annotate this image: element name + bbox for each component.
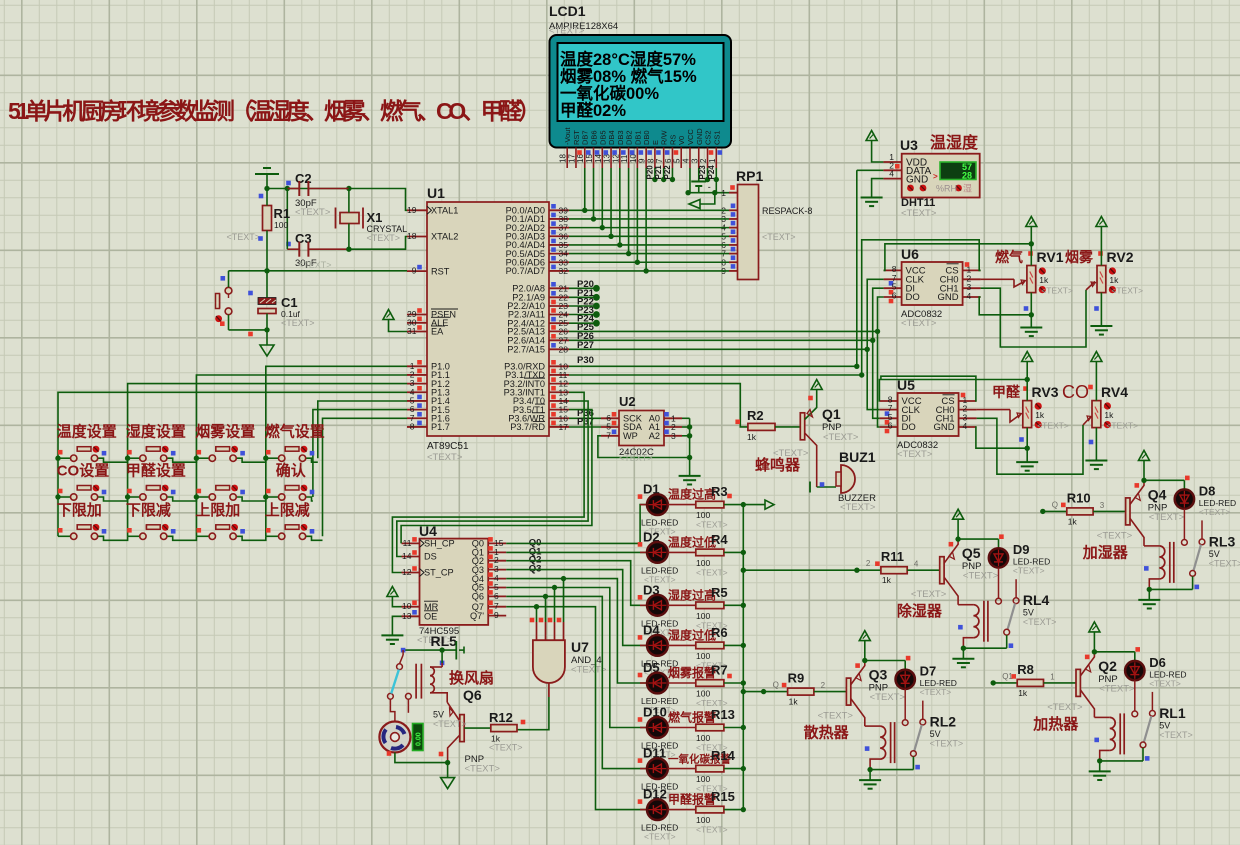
svg-text:<TEXT>: <TEXT> — [433, 719, 467, 729]
wire R9 to Q3 base — [814, 691, 847, 693]
svg-text:18: 18 — [559, 154, 568, 163]
svg-text:P24: P24 — [707, 165, 716, 180]
svg-text:U1: U1 — [427, 185, 445, 201]
svg-text:2: 2 — [821, 681, 826, 690]
svg-text:甲醛02%: 甲醛02% — [560, 100, 626, 120]
wire D9 to relay contact — [998, 568, 1000, 599]
U3 display — [940, 162, 976, 180]
relay RL1 coil — [1119, 713, 1121, 754]
svg-text:VCC: VCC — [686, 129, 695, 145]
ground under C1 — [266, 330, 268, 345]
svg-text:14: 14 — [594, 154, 603, 163]
svg-text:<TEXT>: <TEXT> — [762, 232, 796, 242]
svg-text:31: 31 — [407, 326, 417, 336]
net labels Q0-Q3 — [529, 537, 542, 574]
wire R2 to Q1 base — [775, 426, 800, 428]
transistor Q4 PNP — [1126, 498, 1130, 525]
svg-text:P1.7: P1.7 — [431, 422, 450, 432]
svg-text:<TEXT>: <TEXT> — [644, 832, 676, 842]
svg-text:6: 6 — [494, 591, 499, 601]
svg-text:除湿器: 除湿器 — [897, 602, 943, 620]
svg-text:DB0: DB0 — [642, 130, 651, 145]
svg-text:CS2: CS2 — [704, 130, 713, 145]
svg-text:X1: X1 — [367, 210, 383, 225]
svg-text:<TEXT>: <TEXT> — [295, 207, 331, 218]
svg-text:>: > — [933, 172, 938, 181]
svg-text:DB3: DB3 — [616, 130, 625, 145]
wire Q4 to U7 input — [506, 579, 563, 622]
LCD1 pin stubs and numbers — [559, 148, 722, 169]
svg-text:Q: Q — [1052, 500, 1058, 509]
svg-text:<TEXT>: <TEXT> — [963, 571, 999, 582]
svg-text:100: 100 — [696, 815, 710, 825]
wire fan bottom rail — [395, 753, 448, 763]
svg-text:R8: R8 — [1017, 662, 1034, 677]
wire input net R9 — [761, 689, 766, 694]
potentiometer RV1 — [1027, 266, 1036, 293]
svg-text:100: 100 — [274, 220, 288, 230]
svg-text:<TEXT>: <TEXT> — [1149, 678, 1181, 688]
svg-text:RV2: RV2 — [1107, 249, 1134, 265]
svg-text:9: 9 — [638, 158, 647, 163]
wire LED common bus — [742, 505, 744, 810]
wire button row 1 to P1.4 — [318, 401, 407, 458]
svg-text:RESPACK-8: RESPACK-8 — [762, 206, 812, 216]
svg-text:Q3: Q3 — [869, 667, 888, 683]
svg-text:1k: 1k — [1109, 275, 1119, 285]
svg-text:湿度过低: 湿度过低 — [668, 627, 716, 642]
svg-text:<TEXT>: <TEXT> — [489, 743, 523, 753]
ground U4 OE — [392, 616, 401, 635]
svg-text:温度28°C湿度57%: 温度28°C湿度57% — [560, 49, 696, 69]
wire R7 to bus — [724, 682, 743, 684]
sensor U3 DHT11 — [902, 154, 980, 198]
svg-text:R15: R15 — [711, 789, 735, 804]
svg-text:<TEXT>: <TEXT> — [571, 665, 607, 676]
svg-text:<TEXT>: <TEXT> — [1159, 730, 1193, 740]
svg-text:P30: P30 — [577, 355, 594, 366]
wire input net R8 — [991, 680, 996, 685]
wire top rail to XTAL1 — [287, 189, 407, 211]
wire Q5 top rail to D9 — [958, 538, 998, 540]
svg-text:4: 4 — [681, 158, 690, 163]
svg-text:燃气: 燃气 — [995, 249, 1023, 265]
transistor Q5 PNP — [940, 557, 944, 584]
relay RL2 switch — [902, 720, 908, 726]
svg-text:甲醛设置: 甲醛设置 — [126, 462, 186, 480]
wire Q3 top rail to D7 — [865, 660, 905, 662]
wire U6 CLK down to U5 CLK — [867, 279, 883, 409]
button formaldehyde-set — [128, 496, 140, 498]
wire U4 SH_CP from P3.5 — [401, 410, 592, 544]
svg-text:P0.7/AD7: P0.7/AD7 — [506, 266, 545, 276]
led D8 — [1175, 489, 1194, 508]
wire RV2 bottom to ground — [1100, 293, 1102, 326]
svg-text:R2: R2 — [747, 408, 764, 423]
svg-text:<TEXT>: <TEXT> — [1023, 617, 1057, 627]
svg-text:温度设置: 温度设置 — [57, 423, 117, 441]
button lower-limit-minus — [128, 535, 140, 537]
relay RL1 switch — [1132, 711, 1138, 717]
svg-text:燃气设置: 燃气设置 — [265, 423, 325, 441]
wire R11 to Q5 base — [907, 569, 940, 571]
svg-text:3: 3 — [1100, 501, 1105, 510]
svg-text:18: 18 — [407, 231, 417, 241]
shift register U4 74HC595 — [420, 539, 489, 625]
wire R5 to bus — [724, 604, 743, 606]
svg-text:Q: Q — [773, 681, 779, 690]
button temp-set — [58, 457, 70, 459]
svg-text:R14: R14 — [711, 748, 736, 763]
svg-text:-Vout: -Vout — [563, 127, 572, 145]
svg-text:<TEXT>: <TEXT> — [1047, 702, 1083, 713]
svg-text:<TEXT>: <TEXT> — [465, 764, 501, 775]
button gas-set — [266, 457, 279, 459]
wire R13 to bus — [724, 727, 743, 729]
power arrow Q3 — [859, 631, 870, 641]
button upper-limit-plus — [196, 535, 209, 537]
button CO-set — [58, 496, 70, 498]
U5 left pins — [880, 395, 922, 434]
RP1 pins 2-9 — [721, 204, 737, 276]
svg-text:甲醛报警: 甲醛报警 — [668, 792, 716, 807]
svg-text:Q5: Q5 — [962, 545, 981, 561]
wire RL3 bottom rail — [1149, 588, 1192, 590]
svg-text:5V: 5V — [1159, 720, 1170, 730]
svg-text:RL5: RL5 — [431, 633, 458, 649]
power arrow U4 MR — [387, 587, 398, 597]
svg-text:100: 100 — [696, 611, 710, 621]
svg-text:10: 10 — [402, 601, 412, 611]
svg-text:100: 100 — [696, 733, 710, 743]
fan motor — [379, 722, 410, 753]
svg-text:一氧化碳00%: 一氧化碳00% — [560, 83, 659, 103]
svg-text:RS: RS — [668, 135, 677, 145]
svg-text:CS1: CS1 — [712, 130, 721, 145]
wire P1.3 to button column 1 — [58, 392, 407, 536]
wire R14 to bus — [724, 768, 743, 770]
wire P2.7 row to ADC bus — [569, 348, 867, 350]
svg-text:8: 8 — [410, 421, 415, 431]
svg-text:4: 4 — [967, 291, 972, 301]
svg-text:烟雾设置: 烟雾设置 — [195, 423, 255, 441]
svg-text:<TEXT>: <TEXT> — [1037, 421, 1069, 431]
svg-text:1k: 1k — [747, 432, 757, 442]
svg-text:温度过高: 温度过高 — [668, 487, 716, 502]
svg-text:12: 12 — [402, 567, 412, 577]
power rail symbol top left — [255, 173, 279, 175]
svg-text:RST: RST — [572, 130, 581, 145]
svg-text:GND: GND — [937, 292, 958, 303]
svg-text:100: 100 — [696, 510, 710, 520]
svg-text:燃气报警: 燃气报警 — [668, 710, 716, 725]
wire feed to R11 from bus — [743, 569, 857, 571]
U6 left pins — [884, 264, 926, 303]
net P20 P21 P22 stubs — [645, 165, 675, 182]
U7 input squares — [530, 618, 535, 623]
wire RV1 bottom to ground — [1030, 293, 1032, 327]
svg-text:XTAL1: XTAL1 — [431, 206, 458, 216]
net labels P20-P27 — [577, 279, 595, 351]
transistor Q2 PNP — [1076, 669, 1080, 696]
svg-text:<TEXT>: <TEXT> — [696, 567, 728, 577]
U1 right pins P2 — [507, 282, 569, 355]
svg-text:RL2: RL2 — [930, 714, 957, 730]
svg-text:U3: U3 — [900, 137, 918, 153]
wire U5 CH0 wiper RV3 — [977, 409, 1010, 411]
wire U5 VCC up — [879, 380, 1027, 402]
wire R8 to Q2 base — [1044, 682, 1077, 684]
power arrow RV4 — [1091, 352, 1102, 362]
power arrow EA — [383, 310, 394, 320]
svg-text:<TEXT>: <TEXT> — [281, 318, 315, 328]
U1 left pins — [407, 205, 458, 432]
power arrow RV1 — [1026, 217, 1037, 227]
svg-text:BUZ1: BUZ1 — [839, 449, 876, 465]
svg-text:DS: DS — [424, 552, 437, 562]
power arrow Q1 — [811, 380, 822, 390]
svg-text:P23: P23 — [698, 165, 707, 180]
power arrow Q5 — [953, 509, 964, 519]
svg-text:P2.7/A15: P2.7/A15 — [507, 345, 545, 355]
svg-text:ST_CP: ST_CP — [424, 568, 454, 578]
svg-text:DB1: DB1 — [633, 130, 642, 145]
svg-text:<TEXT>: <TEXT> — [901, 318, 937, 329]
wire Q1 collector to buzzer — [817, 486, 836, 488]
relay RL5 coil — [415, 664, 417, 699]
svg-text:WP: WP — [623, 431, 638, 441]
svg-text:SH_CP: SH_CP — [424, 539, 455, 549]
svg-text:温度过低: 温度过低 — [668, 534, 716, 549]
svg-text:<TEXT>: <TEXT> — [1149, 512, 1185, 523]
svg-text:U7: U7 — [571, 639, 589, 655]
ground RL3 — [1148, 589, 1150, 599]
adc U6 ADC0832 — [902, 262, 963, 305]
svg-text:<TEXT>: <TEXT> — [818, 711, 854, 722]
transistor Q3 PNP — [846, 678, 850, 705]
wire P1.0 to button column 4 — [266, 366, 407, 536]
wire P1.1 to button column 3 — [196, 375, 407, 536]
svg-text:上限加: 上限加 — [195, 502, 240, 519]
relay RL3 coil — [1169, 542, 1171, 583]
svg-text:上限减: 上限减 — [265, 501, 310, 519]
svg-text:<TEXT>: <TEXT> — [1106, 421, 1138, 431]
svg-text:湿度设置: 湿度设置 — [126, 423, 186, 441]
U1 right pins P3 — [504, 360, 569, 432]
svg-text:D6: D6 — [1149, 655, 1166, 670]
button humid-set — [128, 457, 140, 459]
wire Q7 to U7 input — [506, 607, 536, 622]
ground RL4 — [962, 648, 964, 658]
svg-text:<TEXT>: <TEXT> — [1097, 530, 1133, 541]
wire D6 to relay contact — [1134, 680, 1136, 711]
svg-text:17: 17 — [567, 154, 576, 163]
button column junction dots — [55, 456, 268, 500]
svg-text:100: 100 — [696, 774, 710, 784]
wire Q5 to U7 input — [506, 588, 554, 623]
microcontroller U1 AT89C51 — [427, 202, 549, 436]
wire input net R10 — [1040, 509, 1045, 514]
relay RL4 coil — [983, 601, 985, 642]
wire P1.2 to button column 2 — [128, 384, 407, 537]
wire P36 to U2 SCK — [569, 417, 601, 419]
svg-text:RL4: RL4 — [1023, 592, 1050, 608]
wire RV4 bottom ground — [1095, 428, 1097, 460]
ground under U2 — [679, 475, 701, 477]
led D6 — [1125, 661, 1144, 680]
wire RV3 bottom ground — [1026, 428, 1028, 462]
button spare — [196, 496, 209, 498]
svg-text:R4: R4 — [711, 532, 728, 547]
wire D8 to relay contact — [1183, 509, 1185, 540]
wire input net R11 — [854, 568, 859, 573]
ground fan — [447, 763, 449, 778]
svg-text:12: 12 — [611, 154, 620, 163]
wire bottom rail to XTAL2 — [349, 237, 407, 250]
svg-text:<TEXT>: <TEXT> — [427, 452, 463, 463]
svg-text:<TEXT>: <TEXT> — [298, 260, 332, 270]
U4 right pins — [470, 537, 506, 621]
svg-text:R11: R11 — [881, 549, 904, 564]
wire button row 2 to P1.5 — [313, 410, 407, 497]
wire C2-C3 left vertical — [286, 189, 288, 250]
svg-text:R10: R10 — [1067, 490, 1091, 505]
wire reset button bottom — [229, 329, 268, 331]
svg-text:28: 28 — [962, 171, 972, 181]
wire button row 3 to P1.6 — [323, 418, 408, 536]
svg-text:100: 100 — [696, 558, 710, 568]
svg-text:EA: EA — [431, 327, 444, 337]
wire feed to R9 from bus — [743, 691, 763, 693]
svg-text:R1: R1 — [274, 206, 291, 221]
svg-text:1: 1 — [708, 158, 717, 163]
svg-text:9: 9 — [494, 610, 499, 620]
resistor pack RP1 — [738, 185, 759, 280]
wire R10 to Q4 base — [1093, 510, 1126, 512]
potentiometer RV3 — [1023, 401, 1032, 428]
svg-text:<TEXT>: <TEXT> — [1209, 558, 1240, 568]
svg-text:P22: P22 — [663, 165, 672, 180]
svg-text:P20: P20 — [645, 165, 654, 180]
svg-text:<TEXT>: <TEXT> — [823, 432, 859, 443]
wire P37 to U2 SDA — [569, 426, 601, 428]
input terminal arrow — [689, 200, 700, 209]
svg-text:U6: U6 — [901, 246, 919, 262]
svg-text:R3: R3 — [711, 484, 728, 499]
svg-text:DB5: DB5 — [598, 130, 607, 145]
capacitor C1 electrolytic — [258, 298, 276, 305]
net CS2 CS1 stubs P23 P24 — [707, 168, 709, 180]
U2 left pins — [601, 412, 643, 441]
svg-text:<TEXT>: <TEXT> — [1099, 683, 1135, 694]
wire R15 to bus — [724, 809, 743, 811]
svg-text:DB2: DB2 — [625, 130, 634, 145]
svg-text:5V: 5V — [433, 710, 444, 720]
svg-text:1: 1 — [1050, 672, 1055, 681]
svg-text:5: 5 — [673, 158, 682, 163]
svg-text:P3.7/RD: P3.7/RD — [510, 422, 545, 432]
svg-text:100: 100 — [696, 689, 710, 699]
svg-text:10: 10 — [629, 154, 638, 163]
svg-text:19: 19 — [407, 205, 417, 215]
ground RL2 — [869, 770, 871, 780]
svg-text:RV4: RV4 — [1101, 384, 1128, 400]
svg-text:32: 32 — [559, 266, 569, 276]
wire U5 CH1 to RV4 wiper — [977, 418, 1083, 474]
svg-text:A2: A2 — [649, 431, 660, 441]
wire U6 CH1 to RV2 wiper — [981, 288, 1086, 347]
svg-text:温湿度: 温湿度 — [929, 133, 979, 152]
svg-text:<TEXT>: <TEXT> — [901, 208, 937, 219]
svg-text:烟雾08% 燃气15%: 烟雾08% 燃气15% — [560, 66, 697, 86]
wire LCD vcc rail — [689, 168, 691, 193]
svg-text:R12: R12 — [489, 710, 513, 725]
svg-text:RV1: RV1 — [1037, 249, 1064, 265]
svg-text:0.00: 0.00 — [416, 732, 423, 746]
svg-text:3: 3 — [690, 158, 699, 163]
svg-text:28: 28 — [559, 344, 569, 354]
svg-text:3: 3 — [671, 431, 676, 441]
resistor R1 — [263, 206, 272, 231]
svg-text:加热器: 加热器 — [1032, 715, 1079, 733]
svg-text:GND: GND — [695, 128, 704, 145]
button smoke-set — [196, 457, 209, 459]
svg-text:U2: U2 — [619, 394, 636, 409]
svg-text:2: 2 — [866, 559, 871, 568]
wire RL5 top rail — [403, 649, 456, 651]
svg-text:GND: GND — [906, 175, 928, 186]
wire RL1 bottom rail — [1100, 760, 1143, 762]
potentiometer RV4 — [1092, 401, 1101, 428]
svg-text:<TEXT>: <TEXT> — [870, 692, 906, 703]
relay RL4 switch — [996, 598, 1002, 604]
button confirm — [266, 496, 279, 498]
svg-text:4: 4 — [889, 169, 894, 179]
svg-text:<TEXT>: <TEXT> — [1199, 507, 1231, 517]
svg-text:RV3: RV3 — [1032, 384, 1059, 400]
svg-text:Q4: Q4 — [1148, 486, 1167, 502]
svg-text:<TEXT>: <TEXT> — [696, 825, 728, 835]
svg-text:LCD1: LCD1 — [549, 3, 586, 19]
wire U4 DS from P3.4 — [397, 401, 588, 557]
svg-text:R13: R13 — [711, 707, 735, 722]
svg-text:-: - — [708, 182, 711, 192]
wire P2.6 row to ADC bus — [569, 339, 873, 341]
wire U6 DI down to U5 DI — [873, 288, 884, 418]
transistor Q1 PNP — [800, 413, 804, 440]
svg-text:4: 4 — [914, 560, 919, 569]
wire P3.2 to R2 — [569, 384, 748, 427]
wire Q6 to U7 input — [506, 596, 545, 622]
svg-text:D7: D7 — [920, 664, 937, 679]
svg-text:11: 11 — [403, 538, 412, 548]
wire Q6 base to R12 — [464, 727, 491, 729]
wire U5 CS loop — [881, 376, 977, 401]
svg-text:DB6: DB6 — [590, 130, 599, 145]
svg-text:5V: 5V — [1209, 549, 1220, 559]
and gate U7 AND_4 — [533, 640, 565, 683]
svg-text:1k: 1k — [1068, 516, 1078, 526]
U2 right pins — [649, 412, 682, 441]
wire U5 GND to RV3 bottom — [976, 427, 1027, 448]
svg-text:1k: 1k — [1035, 410, 1045, 420]
svg-text:6: 6 — [664, 158, 673, 163]
svg-text:<TEXT>: <TEXT> — [920, 687, 952, 697]
svg-text:DB4: DB4 — [607, 130, 616, 145]
svg-text:R7: R7 — [711, 663, 728, 678]
power arrow RV2 — [1096, 217, 1107, 227]
wire relay to fan — [390, 699, 395, 721]
